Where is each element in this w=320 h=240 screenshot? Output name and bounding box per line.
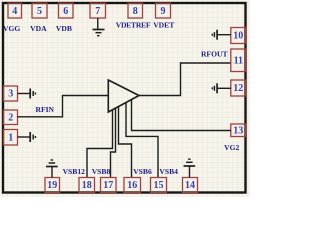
wire VG2 from amplifier to pin 13	[132, 100, 231, 131]
svg-text:3: 3	[8, 89, 13, 100]
sheet background	[0, 0, 250, 197]
svg-text:4: 4	[12, 6, 17, 17]
svg-text:VG2: VG2	[224, 143, 239, 152]
wire pin 7 to ground	[97, 18, 99, 30]
pin 2 box	[4, 110, 18, 125]
svg-text:VDA: VDA	[30, 24, 47, 33]
wire RFOUT from amplifier output to pin 11	[139, 63, 231, 96]
svg-text:8: 8	[133, 6, 138, 17]
pin 3 box	[4, 86, 18, 101]
wire amplifier to pin 16	[119, 107, 132, 178]
wire pin 19 to ground	[51, 167, 53, 178]
svg-text:15: 15	[154, 180, 164, 191]
pin 10 box	[231, 28, 246, 44]
svg-text:18: 18	[82, 180, 92, 191]
pin 1 box	[4, 130, 18, 146]
pin 6 box	[59, 3, 74, 18]
svg-text:10: 10	[233, 31, 243, 42]
svg-text:9: 9	[161, 6, 166, 17]
svg-text:17: 17	[103, 180, 113, 191]
wire pin 10 to ground	[218, 34, 231, 36]
wire amplifier to pin 17	[111, 108, 116, 177]
pin 15 box	[151, 178, 167, 193]
sheet border frame	[3, 3, 246, 193]
svg-text:VDETREF: VDETREF	[116, 21, 151, 30]
svg-text:VGG: VGG	[3, 24, 20, 33]
pin 13 box	[231, 124, 246, 137]
pin 5 box	[32, 3, 47, 18]
wire amplifier to pin 18	[87, 110, 113, 178]
svg-text:RFOUT: RFOUT	[201, 50, 228, 59]
svg-text:VDET: VDET	[153, 21, 174, 30]
svg-text:14: 14	[185, 180, 195, 191]
svg-text:1: 1	[8, 132, 13, 143]
wire pin 12 to ground	[218, 87, 231, 89]
pin 4 box	[8, 3, 22, 18]
pin 17 box	[101, 178, 117, 193]
svg-text:VSB4: VSB4	[159, 167, 178, 176]
wire pin 3 to ground	[18, 93, 30, 95]
svg-text:7: 7	[95, 6, 100, 17]
svg-text:16: 16	[127, 180, 137, 191]
svg-text:12: 12	[233, 83, 243, 94]
svg-text:VSB8: VSB8	[92, 167, 111, 176]
pin 16 box	[124, 178, 141, 193]
ground at pin 10	[212, 30, 217, 40]
pin 14 box	[183, 178, 198, 193]
svg-text:13: 13	[233, 125, 243, 136]
ground at pin 12	[212, 83, 217, 93]
svg-text:5: 5	[37, 6, 42, 17]
svg-text:VSB12: VSB12	[63, 167, 86, 176]
pin 18 box	[79, 178, 95, 193]
svg-text:11: 11	[234, 55, 243, 66]
pin 19 box	[45, 178, 60, 193]
pin 8 box	[128, 3, 143, 18]
pin 12 box	[231, 80, 246, 96]
svg-text:19: 19	[47, 180, 57, 191]
ground at pin 7	[93, 30, 105, 36]
ground at pin 14	[184, 159, 196, 166]
svg-text:RFIN: RFIN	[35, 105, 54, 114]
wire pin 14 to ground	[189, 166, 191, 177]
svg-text:VDB: VDB	[56, 24, 72, 33]
ground at pin 19	[46, 160, 58, 167]
pin 9 box	[156, 3, 171, 18]
wire amplifier to pin 15	[126, 103, 158, 178]
ground at pin 1	[30, 132, 35, 142]
op-amp amplifier triangle	[108, 80, 139, 112]
ground at pin 3	[30, 89, 35, 99]
pin 11 box	[231, 49, 246, 72]
svg-text:6: 6	[63, 6, 68, 17]
wire pin 1 to ground	[18, 136, 30, 138]
svg-text:VSB6: VSB6	[133, 167, 152, 176]
wire RFIN from pin 2 to amplifier input	[18, 96, 109, 117]
svg-text:2: 2	[8, 112, 13, 123]
pin 7 box	[90, 3, 106, 18]
